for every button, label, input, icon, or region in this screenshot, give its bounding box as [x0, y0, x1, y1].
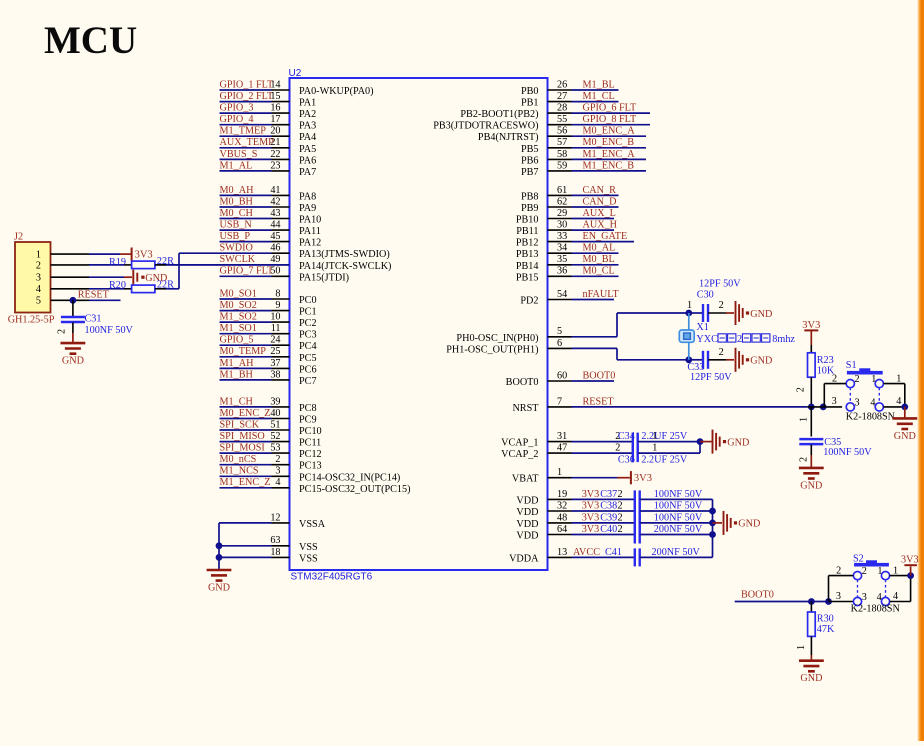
junction VSS 18: [216, 554, 223, 561]
svg-text:5: 5: [36, 296, 41, 307]
svg-text:BOOT0: BOOT0: [741, 590, 774, 601]
svg-text:VSS: VSS: [299, 553, 318, 564]
svg-text:M0_ENC_B: M0_ENC_B: [583, 137, 635, 148]
svg-text:3V3: 3V3: [582, 489, 600, 500]
wire R20 elbow to SWDIO: [178, 253, 180, 289]
svg-text:MCU: MCU: [44, 19, 137, 62]
svg-text:PC6: PC6: [299, 364, 317, 375]
svg-text:M1_SO1: M1_SO1: [220, 323, 257, 334]
svg-text:PB6: PB6: [521, 155, 539, 166]
svg-text:4: 4: [36, 284, 41, 295]
power 3V3 S2: [901, 555, 919, 576]
svg-text:VDDA: VDDA: [509, 553, 539, 564]
svg-text:51: 51: [270, 419, 280, 430]
resistor R20 22R: [51, 279, 180, 292]
pin 12 VSSA: [219, 512, 326, 530]
svg-text:44: 44: [270, 220, 280, 231]
svg-text:8: 8: [275, 288, 280, 299]
svg-text:56: 56: [557, 126, 567, 137]
svg-text:SPI_MOSI: SPI_MOSI: [220, 443, 266, 454]
pin 20 net M1_TMEP: [220, 126, 317, 144]
svg-text:PC11: PC11: [299, 438, 321, 449]
resistor R30 47K: [796, 602, 835, 661]
power 3V3 J2: [132, 248, 153, 261]
resistor R19 22R: [51, 256, 290, 268]
svg-text:29: 29: [557, 208, 567, 219]
svg-text:11: 11: [271, 323, 281, 334]
pin 42 net M0_BH: [220, 196, 317, 214]
capacitor C37 100NF 50V VDD pin 19: [516, 489, 712, 509]
capacitor C38 100NF 50V VDD pin 32: [516, 500, 712, 520]
svg-text:40: 40: [270, 408, 280, 419]
svg-text:42: 42: [270, 196, 280, 207]
pin 59 net M1_ENC_B: [521, 160, 646, 178]
svg-text:60: 60: [557, 370, 567, 381]
svg-text:PC13: PC13: [299, 461, 322, 472]
svg-text:GPIO_2 FLT: GPIO_2 FLT: [220, 91, 274, 102]
pin 36 net M0_CL: [516, 266, 619, 284]
svg-text:GND: GND: [800, 673, 822, 684]
svg-text:36: 36: [557, 266, 567, 277]
pin 33 net EN_GATE: [516, 231, 634, 249]
svg-text:M0_TEMP: M0_TEMP: [220, 346, 267, 357]
svg-text:PB10: PB10: [516, 215, 539, 226]
svg-text:2: 2: [618, 500, 623, 511]
svg-text:VCAP_1: VCAP_1: [501, 438, 538, 449]
resistor R23 10K: [796, 345, 835, 407]
svg-text:3: 3: [36, 273, 41, 284]
svg-text:1: 1: [652, 443, 657, 454]
svg-text:RESET: RESET: [78, 290, 110, 301]
svg-text:BOOT0: BOOT0: [506, 377, 539, 388]
connector J2 GH1.25-5P: [8, 232, 55, 326]
svg-text:14: 14: [270, 79, 280, 90]
svg-text:27: 27: [557, 91, 567, 102]
svg-text:3V3: 3V3: [802, 320, 820, 331]
pin 4 net M1_ENC_Z: [220, 477, 411, 495]
pin 55 net GPIO_8 FLT: [433, 114, 650, 132]
junction VDD 32: [709, 508, 716, 515]
pin 47 VCAP_2: [501, 443, 633, 461]
svg-text:PC8: PC8: [299, 403, 317, 414]
svg-text:PA9: PA9: [299, 203, 316, 214]
pin 24 net GPIO_5: [220, 335, 317, 353]
svg-text:NRST: NRST: [512, 403, 539, 414]
svg-text:1: 1: [877, 566, 882, 577]
svg-text:47K: 47K: [817, 624, 835, 635]
svg-text:PB1: PB1: [521, 98, 539, 109]
svg-text:VBUS_S: VBUS_S: [220, 149, 258, 160]
svg-text:PA15(JTDI): PA15(JTDI): [299, 272, 349, 283]
junction VCAP: [697, 438, 704, 445]
svg-text:CAN_D: CAN_D: [583, 196, 617, 207]
svg-text:PA10: PA10: [299, 215, 321, 226]
pin 54 net nFAULT: [520, 289, 619, 307]
capacitor C35 100NF 50V: [799, 407, 873, 468]
svg-text:M0_BL: M0_BL: [583, 254, 615, 265]
junction VDD 64: [709, 531, 716, 538]
svg-text:STM32F405RGT6: STM32F405RGT6: [291, 571, 373, 582]
svg-text:PC0: PC0: [299, 295, 317, 306]
svg-text:R20: R20: [109, 280, 126, 291]
svg-text:S1: S1: [846, 360, 857, 371]
svg-text:2: 2: [796, 387, 807, 392]
net BOOT0 wire: [735, 590, 829, 602]
pin 31 VCAP_1: [501, 431, 633, 449]
svg-text:PB4(NJTRST): PB4(NJTRST): [478, 132, 539, 143]
svg-text:GPIO_4: GPIO_4: [220, 114, 254, 125]
svg-text:J2: J2: [14, 232, 23, 243]
ground GND below VSS: [207, 570, 232, 594]
svg-text:3V3: 3V3: [582, 524, 600, 535]
wire J2 pin1 to 3V3: [51, 253, 132, 255]
svg-text:1: 1: [896, 374, 901, 385]
junction RESET S1: [820, 404, 827, 411]
svg-text:R19: R19: [109, 257, 126, 268]
svg-text:nFAULT: nFAULT: [583, 289, 620, 300]
svg-text:2: 2: [719, 300, 724, 311]
pin 49 net SWCLK: [155, 254, 391, 272]
svg-text:4: 4: [870, 398, 875, 409]
svg-text:59: 59: [557, 160, 567, 171]
pin 46 net SWDIO: [179, 243, 390, 261]
capacitor C39 100NF 50V VDD pin 48: [516, 512, 712, 532]
svg-text:47: 47: [557, 443, 567, 454]
wire osc in elbow: [617, 313, 689, 337]
capacitor C33 12PF 50V: [687, 347, 732, 383]
capacitor C30 12PF 50V: [687, 279, 741, 323]
svg-text:100NF 50V: 100NF 50V: [654, 489, 703, 500]
junction BOOT0 R30: [808, 598, 815, 605]
svg-text:PC9: PC9: [299, 415, 317, 426]
pin 9 net M0_SO2: [220, 300, 317, 318]
svg-text:RESET: RESET: [583, 396, 615, 407]
pin 27 net M1_CL: [521, 91, 619, 109]
svg-text:24: 24: [270, 335, 280, 346]
pin 15 net GPIO_2 FLT: [220, 91, 317, 109]
svg-text:43: 43: [270, 208, 280, 219]
svg-text:15: 15: [270, 91, 280, 102]
svg-text:200NF 50V: 200NF 50V: [654, 524, 703, 535]
svg-text:PC5: PC5: [299, 353, 317, 364]
svg-text:4: 4: [275, 477, 280, 488]
svg-text:PB13: PB13: [516, 249, 539, 260]
svg-text:M1_ENC_B: M1_ENC_B: [583, 160, 635, 171]
svg-text:22R: 22R: [157, 279, 174, 290]
svg-text:2.2UF 25V: 2.2UF 25V: [641, 431, 687, 442]
svg-text:AUX_L: AUX_L: [583, 208, 616, 219]
pin 35 net M0_BL: [516, 254, 619, 272]
svg-text:PC12: PC12: [299, 449, 322, 460]
svg-text:2: 2: [855, 374, 860, 385]
svg-text:PB11: PB11: [516, 226, 538, 237]
pin 58 net M1_ENC_A: [521, 149, 646, 167]
title MCU: [44, 19, 137, 62]
pin 38 net M1_BH: [220, 369, 317, 387]
svg-text:54: 54: [557, 289, 567, 300]
svg-text:M1_AL: M1_AL: [220, 160, 253, 171]
ground GND R30: [799, 661, 824, 685]
pin 14 net GPIO_1 FLT: [220, 79, 374, 97]
svg-text:2: 2: [36, 260, 41, 271]
capacitor C34 2.2UF 25V: [615, 431, 688, 451]
pin 62 net CAN_D: [521, 196, 619, 214]
svg-text:PA12: PA12: [299, 238, 321, 249]
svg-text:16: 16: [270, 103, 280, 114]
svg-text:PA8: PA8: [299, 191, 316, 202]
svg-text:GND: GND: [62, 356, 84, 367]
svg-text:20: 20: [270, 126, 280, 137]
svg-text:M1_CL: M1_CL: [583, 91, 615, 102]
svg-text:BOOT0: BOOT0: [583, 370, 616, 381]
svg-text:200NF 50V: 200NF 50V: [652, 547, 701, 558]
svg-text:55: 55: [557, 114, 567, 125]
svg-text:GND: GND: [738, 519, 760, 530]
svg-text:M0_CL: M0_CL: [583, 266, 615, 277]
svg-text:46: 46: [270, 243, 280, 254]
svg-text:GND: GND: [750, 356, 772, 367]
pin 34 net M0_AL: [516, 243, 619, 261]
pin 56 net M0_ENC_A: [478, 126, 646, 144]
pin 57 net M0_ENC_B: [521, 137, 646, 155]
svg-text:M1_NCS: M1_NCS: [220, 466, 259, 477]
svg-text:1: 1: [893, 566, 898, 577]
svg-text:2: 2: [615, 443, 620, 454]
svg-text:SWDIO: SWDIO: [220, 243, 253, 254]
pin 37 net M1_AH: [220, 358, 317, 376]
svg-text:2: 2: [836, 566, 841, 577]
pin 26 net M1_BL: [521, 79, 619, 97]
svg-text:GND: GND: [750, 309, 772, 320]
svg-text:GH1.25-5P: GH1.25-5P: [8, 314, 55, 325]
svg-text:2: 2: [799, 457, 810, 462]
pin 63 VSS: [219, 535, 318, 553]
svg-text:6: 6: [557, 338, 562, 349]
junction RESET R23: [808, 404, 815, 411]
svg-text:YXC: YXC: [696, 334, 718, 345]
svg-text:M0_SO2: M0_SO2: [220, 300, 257, 311]
svg-text:19: 19: [557, 489, 567, 500]
svg-text:45: 45: [270, 231, 280, 242]
pin 23 net M1_AL: [220, 160, 317, 178]
svg-text:1: 1: [871, 374, 876, 385]
svg-text:8mhz: 8mhz: [772, 334, 795, 345]
svg-text:AUX_TEMP: AUX_TEMP: [220, 137, 275, 148]
svg-text:PC2: PC2: [299, 318, 317, 329]
svg-text:PC3: PC3: [299, 330, 317, 341]
svg-text:GND: GND: [894, 431, 916, 442]
svg-text:M1_ENC_A: M1_ENC_A: [583, 149, 636, 160]
svg-text:M1_BL: M1_BL: [583, 79, 615, 90]
svg-text:GPIO_7 FLT: GPIO_7 FLT: [220, 266, 274, 277]
pin 52 net SPI_MISO: [220, 431, 322, 449]
pin 18 VSS: [219, 547, 318, 565]
svg-text:25: 25: [270, 346, 280, 357]
svg-text:PC4: PC4: [299, 341, 317, 352]
svg-text:50: 50: [270, 266, 280, 277]
svg-text:2: 2: [618, 524, 623, 535]
pin 6 PH1-OSC_OUT: [446, 338, 617, 356]
wire VDD gnd lead: [713, 522, 723, 524]
wire VDD bus: [712, 499, 714, 557]
svg-text:PB12: PB12: [516, 238, 539, 249]
ground GND VDD: [724, 511, 761, 535]
svg-text:3: 3: [862, 592, 867, 603]
wire VSS bus: [218, 523, 220, 570]
capacitor C40 200NF 50V VDD pin 64: [516, 524, 712, 544]
crystal X1 YXC 8mhz: [679, 313, 795, 360]
svg-text:PB7: PB7: [521, 167, 539, 178]
svg-text:C38: C38: [600, 500, 617, 511]
svg-text:17: 17: [270, 114, 280, 125]
svg-text:1: 1: [687, 300, 692, 311]
svg-text:5: 5: [557, 326, 562, 337]
pin 39 net M1_CH: [220, 396, 317, 414]
power 3V3 R23: [802, 320, 820, 345]
svg-text:PA14(JTCK-SWCLK): PA14(JTCK-SWCLK): [299, 261, 391, 272]
svg-text:1: 1: [36, 250, 41, 261]
svg-text:VBAT: VBAT: [512, 474, 539, 485]
wire node bottom to C33: [689, 359, 703, 361]
svg-text:61: 61: [557, 185, 567, 196]
svg-text:100NF 50V: 100NF 50V: [654, 512, 703, 523]
svg-text:PB2-BOOT1(PB2): PB2-BOOT1(PB2): [460, 109, 538, 120]
ground GND C35: [799, 468, 824, 492]
svg-text:AVCC: AVCC: [573, 547, 600, 558]
svg-text:52: 52: [270, 431, 280, 442]
svg-text:PA5: PA5: [299, 144, 316, 155]
wire node top to C30: [689, 312, 703, 314]
svg-text:M0_SO1: M0_SO1: [220, 288, 257, 299]
svg-text:C36: C36: [618, 454, 635, 465]
svg-text:VSS: VSS: [299, 542, 318, 553]
svg-text:PB15: PB15: [516, 272, 539, 283]
svg-text:PA3: PA3: [299, 121, 316, 132]
svg-text:PD2: PD2: [520, 296, 538, 307]
svg-text:2: 2: [618, 489, 623, 500]
IC U2 STM32F405RGT6: [289, 68, 548, 582]
svg-text:X1: X1: [696, 322, 708, 333]
svg-text:M1_CH: M1_CH: [220, 396, 254, 407]
svg-text:21: 21: [270, 137, 280, 148]
pin 30 net AUX_H: [516, 220, 617, 238]
svg-text:PC1: PC1: [299, 307, 317, 318]
svg-text:PC15-OSC32_OUT(PC15): PC15-OSC32_OUT(PC15): [299, 484, 411, 495]
svg-text:GPIO_8 FLT: GPIO_8 FLT: [583, 114, 637, 125]
svg-text:PA6: PA6: [299, 155, 316, 166]
svg-text:C40: C40: [600, 524, 617, 535]
svg-text:1: 1: [652, 431, 657, 442]
svg-text:M1_BH: M1_BH: [220, 369, 254, 380]
pin 61 net CAN_R: [521, 185, 619, 203]
svg-text:AUX_H: AUX_H: [583, 220, 618, 231]
svg-text:C34: C34: [618, 431, 635, 442]
svg-text:35: 35: [557, 254, 567, 265]
junction C31 tap: [70, 297, 77, 304]
svg-text:2: 2: [862, 566, 867, 577]
svg-text:22: 22: [270, 149, 280, 160]
svg-text:M1_AH: M1_AH: [220, 358, 255, 369]
svg-text:M0_ENC_Z: M0_ENC_Z: [220, 408, 271, 419]
ground GND J2: [133, 270, 167, 285]
svg-text:GPIO_6 FLT: GPIO_6 FLT: [583, 103, 637, 114]
ground GND S1: [892, 407, 917, 442]
svg-text:C31: C31: [85, 314, 102, 325]
pin 10 net M1_SO2: [220, 312, 317, 330]
svg-text:100NF 50V: 100NF 50V: [654, 500, 703, 511]
svg-text:4: 4: [893, 591, 898, 602]
ground GND C30: [736, 301, 773, 325]
power 3V3 VBAT: [631, 471, 652, 484]
svg-text:PA11: PA11: [299, 226, 321, 237]
svg-text:2: 2: [57, 329, 68, 334]
svg-text:GND: GND: [800, 480, 822, 491]
svg-text:PB14: PB14: [516, 261, 539, 272]
svg-text:3V3: 3V3: [901, 555, 919, 566]
svg-text:M0_ENC_A: M0_ENC_A: [583, 126, 636, 137]
svg-text:PB3(JTDOTRACESWO): PB3(JTDOTRACESWO): [433, 121, 538, 132]
svg-text:58: 58: [557, 149, 567, 160]
svg-text:C41: C41: [605, 547, 622, 558]
junction VDD 48: [709, 520, 716, 527]
svg-text:CAN_R: CAN_R: [583, 185, 617, 196]
sheet border strip: [917, 0, 924, 741]
svg-text:C37: C37: [600, 489, 617, 500]
svg-text:9: 9: [275, 300, 280, 311]
svg-text:38: 38: [270, 369, 280, 380]
pin 51 net SPI_SCK: [220, 419, 322, 437]
pin 41 net M0_AH: [220, 185, 317, 203]
junction node top: [685, 310, 692, 317]
svg-text:GPIO_1 FLT: GPIO_1 FLT: [220, 79, 274, 90]
svg-text:4: 4: [896, 396, 901, 407]
svg-text:M0_BH: M0_BH: [220, 196, 254, 207]
svg-text:VDD: VDD: [516, 531, 538, 542]
svg-text:PB8: PB8: [521, 191, 539, 202]
pin 25 net M0_TEMP: [220, 346, 317, 364]
svg-text:R30: R30: [817, 614, 834, 625]
svg-text:31: 31: [557, 431, 567, 442]
svg-text:PB0: PB0: [521, 86, 539, 97]
capacitor C31 100NF 50V: [57, 300, 134, 343]
svg-text:23: 23: [270, 160, 280, 171]
svg-text:3: 3: [855, 398, 860, 409]
svg-text:VDD: VDD: [516, 507, 538, 518]
pin 17 net GPIO_4: [220, 114, 317, 132]
wire VCAP join: [638, 442, 700, 454]
svg-text:64: 64: [557, 524, 567, 535]
svg-text:57: 57: [557, 137, 567, 148]
pin 50 net GPIO_7 FLT: [220, 266, 350, 284]
svg-text:EN_GATE: EN_GATE: [583, 231, 628, 242]
pin 5 PH0-OSC_IN: [456, 326, 617, 344]
svg-text:K2-1808SN: K2-1808SN: [846, 412, 896, 423]
svg-text:13: 13: [557, 547, 567, 558]
svg-text:VCAP_2: VCAP_2: [501, 449, 538, 460]
pin 53 net SPI_MOSI: [220, 443, 322, 461]
svg-text:63: 63: [270, 535, 280, 546]
svg-text:PB9: PB9: [521, 203, 539, 214]
ground GND C33: [736, 348, 773, 372]
svg-text:VDD: VDD: [516, 519, 538, 530]
svg-text:PA2: PA2: [299, 109, 316, 120]
junction VSS 63: [216, 542, 223, 549]
ground GND VCAP: [713, 430, 750, 454]
junction S2 3V3: [907, 572, 914, 579]
svg-text:12PF 50V: 12PF 50V: [699, 279, 741, 290]
svg-text:K2-1808SN: K2-1808SN: [851, 604, 901, 615]
svg-text:PA4: PA4: [299, 132, 316, 143]
